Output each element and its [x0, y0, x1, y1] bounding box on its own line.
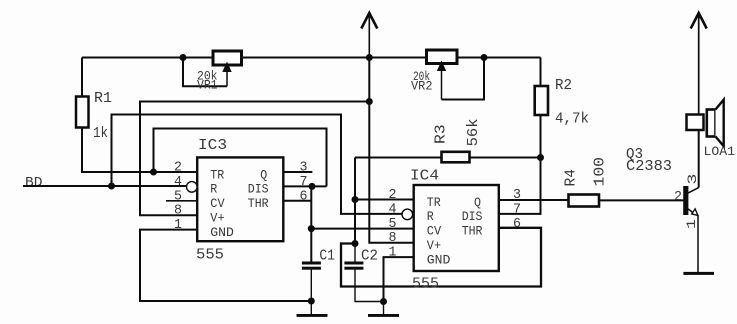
wire IC3 pins 7-6 down to C1: [310, 186, 312, 262]
svg-text:7: 7: [513, 202, 521, 217]
junction node BD: [108, 183, 115, 190]
wire IC3 pin 6 (THR) stub: [283, 200, 311, 202]
svg-text:TR: TR: [427, 195, 441, 210]
svg-text:6: 6: [513, 217, 521, 232]
junction C1 node / CV link: [308, 225, 315, 232]
ground (C2 / IC4): [368, 314, 399, 317]
wire supply arrow shaft (thin): [368, 13, 370, 58]
svg-text:DIS: DIS: [462, 209, 483, 224]
VR1 wiper arrow: [222, 62, 231, 73]
resistor R2 body: [535, 86, 548, 115]
Q3 collector lead: [688, 188, 699, 194]
wire V+ rail to IC3 pin 8: [140, 102, 369, 216]
svg-text:C1: C1: [319, 248, 335, 265]
junction IC4 TR node: [352, 196, 359, 203]
wire right supply arrow shaft (thin): [698, 13, 700, 113]
wire R1 bottom to IC3 pin 2 (TR): [82, 128, 197, 173]
svg-text:100: 100: [592, 157, 609, 187]
svg-text:VR2: VR2: [411, 79, 433, 94]
svg-text:3: 3: [685, 174, 700, 185]
svg-text:BD: BD: [25, 175, 43, 191]
svg-text:4: 4: [174, 175, 182, 190]
wire ground stem right: [383, 302, 385, 315]
svg-text:R: R: [427, 209, 434, 224]
junction supply / top rail: [366, 54, 373, 61]
wire R3 right link: [470, 157, 541, 159]
svg-text:TR: TR: [210, 167, 224, 182]
svg-text:1: 1: [174, 218, 182, 233]
capacitor C1 plates: [302, 262, 321, 265]
op-amp/timer IC3 box: [197, 157, 283, 241]
speaker LOA1 magnet box: [687, 115, 704, 131]
wire R3 left link: [355, 157, 442, 159]
svg-text:5: 5: [174, 189, 182, 204]
svg-text:R1: R1: [94, 90, 112, 107]
svg-text:CV: CV: [427, 224, 441, 239]
svg-text:2: 2: [674, 189, 682, 205]
svg-text:IC3: IC3: [198, 137, 227, 154]
IC3 reset bubble (pin 4): [187, 182, 198, 193]
svg-text:LOA1: LOA1: [704, 144, 736, 159]
wire speaker / Q3 collector: [698, 113, 700, 188]
junction node TR/R1: [150, 169, 157, 176]
junction C2 top node: [352, 240, 359, 247]
svg-text:555: 555: [412, 276, 439, 293]
junction VR2 wiper / rail: [481, 54, 488, 61]
svg-text:THR: THR: [248, 196, 269, 211]
svg-text:IC4: IC4: [410, 168, 439, 185]
svg-text:2: 2: [389, 188, 397, 203]
wire Q3 emitter to ground: [697, 215, 699, 272]
potentiometer VR1 body: [213, 51, 242, 65]
svg-text:R4: R4: [563, 169, 580, 187]
svg-text:THR: THR: [462, 224, 483, 239]
potentiometer VR2 body: [427, 50, 458, 64]
wire R1 top to rail: [81, 58, 83, 97]
wire VR2 wiper loop: [442, 58, 485, 100]
svg-text:6: 6: [300, 189, 308, 204]
wire IC3 pin 3 (Q) stub: [283, 171, 312, 173]
resistor R3 body: [442, 152, 470, 163]
svg-text:2: 2: [174, 161, 182, 176]
speaker LOA1 frame: [707, 110, 716, 137]
svg-text:V+: V+: [210, 211, 224, 226]
transistor Q3 base bar: [683, 186, 688, 215]
svg-text:R: R: [210, 182, 217, 197]
speaker LOA1 horn: [716, 100, 724, 147]
wire top supply rail: [82, 57, 541, 59]
svg-text:GND: GND: [210, 225, 234, 240]
supply arrow right (V+): [691, 13, 707, 29]
wire ground stem left: [310, 301, 312, 314]
svg-text:4: 4: [389, 202, 397, 217]
svg-text:3: 3: [513, 188, 521, 203]
svg-text:Q: Q: [474, 195, 481, 210]
wire TR node up-over to IC3 pin 7: [154, 129, 327, 187]
svg-text:R2: R2: [555, 77, 572, 94]
svg-text:R3: R3: [432, 124, 449, 144]
junction supply / V+ rail: [366, 98, 373, 105]
junction ground node left: [308, 298, 315, 305]
svg-text:V+: V+: [427, 238, 441, 253]
junction R2 / R3 / DIS node: [537, 154, 544, 161]
wire IC4 pin 3 (Q) to R4: [499, 199, 569, 201]
wire BD input to IC3 pin 4 (R): [23, 185, 187, 187]
junction ground node right: [380, 298, 387, 305]
svg-text:CV: CV: [210, 196, 224, 211]
svg-text:1: 1: [684, 219, 699, 229]
svg-text:Q: Q: [260, 167, 267, 182]
wire R4 to Q3 base: [599, 199, 684, 201]
svg-text:1: 1: [389, 246, 397, 261]
svg-text:C2383: C2383: [626, 158, 672, 175]
wire IC4 pin 1 (GND) to ground: [384, 257, 414, 301]
wire BD up-over to IC4 pin 4 (R): [112, 115, 403, 214]
ground (Q3 emitter): [683, 272, 714, 275]
op-amp/timer IC4 box: [414, 185, 499, 271]
svg-text:1k: 1k: [93, 125, 108, 142]
svg-text:555: 555: [196, 247, 224, 264]
supply arrow mid (V+): [361, 13, 377, 29]
wire C2 bottom to ground: [355, 269, 384, 302]
Q3 emitter lead: [688, 209, 693, 213]
capacitor C2 plates: [344, 262, 363, 265]
svg-text:3: 3: [300, 161, 308, 176]
svg-text:VR1: VR1: [197, 78, 218, 93]
svg-text:56k: 56k: [465, 119, 482, 147]
junction IC3 pins 7/6: [309, 183, 316, 190]
wire supply arrow shaft down to IC4 pin 8 (V+): [369, 58, 413, 243]
wire C2 top stem: [354, 244, 356, 263]
svg-text:8: 8: [174, 204, 182, 219]
wire IC3 pin 7 (DIS): [283, 185, 326, 187]
wire R3 node column to C2: [354, 158, 356, 244]
svg-text:7: 7: [300, 175, 308, 190]
wire C1 bottom to ground: [310, 269, 312, 301]
VR2 wiper arrow: [437, 61, 446, 72]
wire to IC4 pin 2 (TR): [355, 199, 414, 201]
svg-text:DIS: DIS: [248, 182, 269, 197]
resistor R1 body: [76, 97, 89, 128]
resistor R4 body: [569, 195, 600, 207]
svg-text:C2: C2: [361, 248, 378, 265]
svg-text:GND: GND: [427, 252, 451, 267]
junction VR1 wiper / rail: [180, 54, 187, 61]
wire rail down to R2: [540, 58, 542, 87]
wire IC4 pin 6 (THR) loop to C2 node: [341, 228, 541, 287]
wire VR1 wiper loop: [183, 58, 227, 87]
svg-text:4,7k: 4,7k: [555, 111, 589, 128]
wire IC3 timing node to IC4 pin 5 (CV): [311, 228, 413, 230]
svg-text:8: 8: [389, 231, 397, 246]
IC4 reset bubble (pin 4): [402, 209, 413, 220]
wire IC3 pin 5 (CV) stub: [166, 200, 197, 202]
svg-text:5: 5: [389, 217, 397, 232]
wire IC3 pin 1 (GND) loop to ground: [140, 230, 311, 301]
ground (C1 / IC3): [297, 314, 328, 317]
wire R2 bottom to IC4 pin 7 (DIS): [499, 115, 541, 214]
